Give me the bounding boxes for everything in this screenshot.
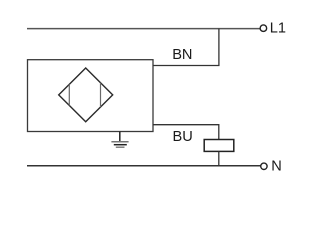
- svg-text:BN: BN: [172, 47, 192, 63]
- svg-text:N: N: [271, 158, 282, 174]
- svg-text:BU: BU: [173, 129, 193, 145]
- svg-text:L1: L1: [270, 21, 286, 37]
